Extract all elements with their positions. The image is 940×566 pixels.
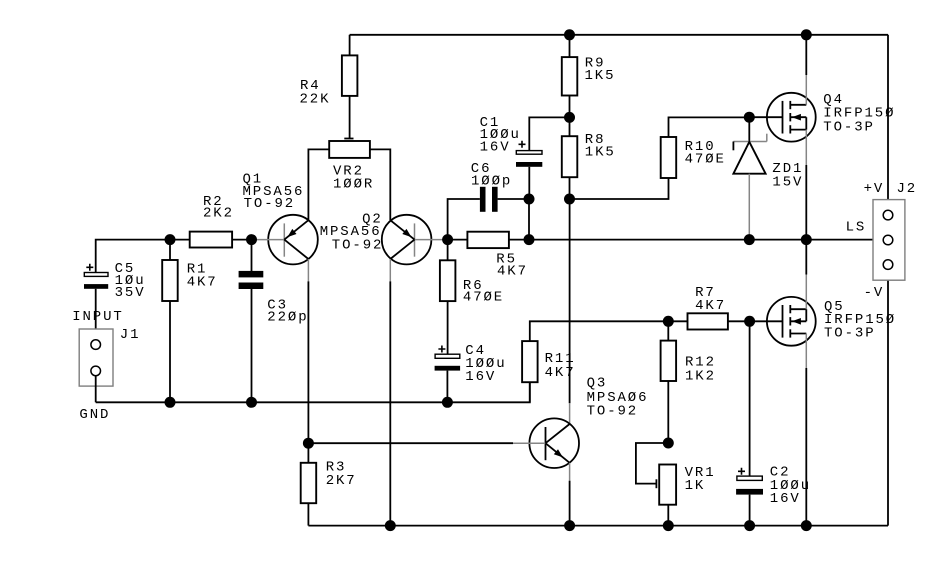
node Q4 source / mid rail	[801, 234, 812, 245]
resistor R1	[169, 240, 171, 260]
svg-text:2K2: 2K2	[203, 206, 234, 222]
node bottom rail / Q5 drain	[801, 520, 812, 531]
svg-text:22Øp: 22Øp	[267, 310, 308, 326]
svg-text:16V: 16V	[480, 140, 511, 156]
connector J2	[873, 200, 905, 281]
svg-text:-V: -V	[864, 285, 885, 301]
wire Q5 source to mid rail	[805, 275, 807, 310]
wire R11 top row	[530, 321, 669, 341]
node top rail / R9	[564, 29, 575, 40]
svg-text:1K5: 1K5	[585, 145, 616, 161]
node R2 / Q1 base / C3	[246, 234, 257, 245]
svg-text:1K2: 1K2	[685, 369, 716, 385]
node R7 / R12	[663, 316, 674, 327]
wire VR2 left to Q1 emitter	[308, 149, 329, 220]
svg-text:+V: +V	[864, 181, 885, 197]
zener diode ZD1	[748, 117, 750, 141]
resistor R7	[668, 320, 687, 322]
svg-text:15V: 15V	[772, 174, 803, 190]
wire C6 node down to R5 node	[528, 199, 530, 240]
svg-text:16V: 16V	[465, 369, 496, 385]
svg-text:J1: J1	[120, 327, 141, 343]
svg-text:J2: J2	[897, 181, 918, 197]
node R8 / C6 / R10	[564, 194, 575, 205]
potentiometer VR1	[636, 443, 668, 484]
node input / R1	[165, 234, 176, 245]
node bottom rail / Q2 collector	[385, 520, 396, 531]
wire top rail	[350, 34, 888, 36]
capacitor C5	[86, 264, 93, 271]
svg-text:TO-92: TO-92	[332, 238, 384, 254]
capacitor C4	[438, 346, 445, 353]
wire Q3 base row from R3 node	[308, 442, 513, 444]
svg-text:1K5: 1K5	[585, 68, 616, 84]
node R7 / C2 / Q5 gate	[744, 316, 755, 327]
resistor R12	[667, 321, 669, 340]
capacitor C3	[251, 240, 253, 272]
svg-text:1ØØp: 1ØØp	[471, 173, 512, 189]
resistor R3	[307, 443, 309, 463]
resistor R4	[349, 35, 351, 56]
transistor Q1 MPSA56	[268, 215, 318, 265]
transistor Q3 MPSA06	[529, 418, 579, 468]
svg-text:TO-3P: TO-3P	[824, 325, 876, 341]
connector J1 INPUT	[79, 329, 113, 386]
wire bottom rail	[308, 525, 888, 527]
svg-text:TO-92: TO-92	[587, 403, 639, 419]
svg-text:16V: 16V	[770, 491, 801, 507]
svg-text:47ØE: 47ØE	[685, 151, 726, 167]
svg-text:LS: LS	[846, 220, 867, 236]
svg-text:47ØE: 47ØE	[463, 290, 504, 306]
wire VR2 right to Q2 emitter	[370, 149, 390, 220]
capacitor C6	[480, 187, 486, 212]
wire Q2 collector down	[389, 259, 391, 281]
wire gate Q5	[750, 320, 783, 322]
svg-text:TO-92: TO-92	[244, 196, 296, 212]
potentiometer VR2	[344, 138, 353, 140]
resistor R6	[447, 240, 449, 261]
node Q2 base / R5 / C6 / R6	[442, 234, 453, 245]
svg-text:TO-3P: TO-3P	[823, 119, 875, 135]
svg-text:4K7: 4K7	[187, 275, 218, 291]
wire input row	[96, 240, 190, 273]
wire right +V drop to J2	[887, 35, 889, 211]
transistor Q2 MPSA56	[382, 215, 432, 265]
wire Q1 collector down	[307, 259, 309, 281]
node bottom rail / Q3 emitter	[564, 520, 575, 531]
node Q1 collector / R3 / Q3 base	[303, 438, 314, 449]
capacitor C2	[749, 321, 751, 476]
svg-text:2K7: 2K7	[326, 473, 357, 489]
node top rail / Q4 drain	[801, 29, 812, 40]
wire R8 node down to Q3 collector	[569, 199, 571, 403]
resistor R8	[569, 117, 571, 136]
wire Q4 drain to top rail	[805, 75, 807, 105]
svg-text:4K7: 4K7	[545, 365, 576, 381]
wire mid rail (LS)	[529, 239, 883, 241]
wire right -V rise to J2	[887, 269, 889, 525]
resistor R2	[190, 232, 232, 248]
wire Q4 source to mid rail	[805, 130, 807, 165]
node bottom rail / C2	[744, 520, 755, 531]
svg-text:22K: 22K	[300, 91, 331, 107]
svg-text:INPUT: INPUT	[72, 309, 124, 325]
node ZD1 / mid rail	[744, 234, 755, 245]
svg-text:4K7: 4K7	[695, 298, 726, 314]
node GND / C3	[246, 397, 257, 408]
resistor R11	[522, 341, 538, 382]
svg-text:1ØØR: 1ØØR	[333, 177, 374, 193]
MOSFET Q4 IRFP150	[767, 93, 816, 142]
wire Q5 drain to bottom rail	[805, 334, 807, 369]
wire gate Q4	[749, 116, 782, 118]
svg-text:35V: 35V	[115, 285, 146, 301]
node GND / R1	[165, 397, 176, 408]
wire GND rail	[96, 382, 530, 402]
wire to C6	[448, 199, 480, 240]
resistor R10	[661, 137, 677, 178]
node R5 / mid rail	[524, 234, 535, 245]
node C6 / C1	[524, 194, 535, 205]
resistor R9	[569, 35, 571, 57]
node R9 / R8 / C1	[564, 112, 575, 123]
capacitor C1	[529, 117, 569, 150]
wire Q3 emitter to bottom rail	[569, 463, 571, 481]
svg-text:1K: 1K	[685, 478, 706, 494]
svg-text:4K7: 4K7	[497, 263, 528, 279]
MOSFET Q5 IRFP150	[767, 297, 816, 346]
node bottom rail / VR1	[663, 520, 674, 531]
node R12 / VR1	[663, 438, 674, 449]
wire R8 node to R10	[570, 178, 669, 199]
svg-text:GND: GND	[79, 407, 110, 423]
node GND / C4	[442, 397, 453, 408]
node R10 / ZD1 / Q4 gate	[744, 112, 755, 123]
resistor R5	[448, 239, 468, 241]
